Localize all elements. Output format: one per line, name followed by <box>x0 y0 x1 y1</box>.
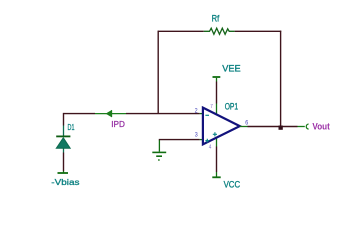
wire: feedback left vertical <box>157 31 159 114</box>
wire: input horizontal to op-amp <box>126 113 200 115</box>
svg-text:2: 2 <box>195 107 198 114</box>
op-amp OP1 <box>203 108 240 145</box>
-Vbias terminal <box>58 171 69 173</box>
wire: VCC vertical <box>216 147 218 173</box>
photodiode D1 <box>56 126 70 153</box>
svg-text:OP1: OP1 <box>225 101 238 111</box>
wire: VEE vertical <box>216 82 218 104</box>
wire: op-amp pin3 green stub <box>200 139 203 141</box>
svg-text:VCC: VCC <box>224 180 241 190</box>
resistor R f symbol <box>204 28 235 34</box>
svg-text:D1: D1 <box>68 122 75 132</box>
VEE terminal <box>213 77 221 82</box>
wire: op-amp pin4 green stub <box>216 138 218 147</box>
output terminal Vout (open connector) <box>306 124 308 129</box>
wire: op-amp pin7 green stub <box>216 104 218 115</box>
wire: op-amp pin6 green stub <box>240 126 248 128</box>
wire: top feedback horizontal right segment <box>235 30 282 32</box>
wire: green current-probe segment <box>95 113 126 115</box>
wire: diode bottom vertical <box>63 153 65 172</box>
svg-text:Rf: Rf <box>212 14 220 24</box>
junction (output node) <box>279 126 283 130</box>
VCC terminal <box>212 172 220 177</box>
wire: diode top vertical <box>63 113 65 126</box>
svg-text:7: 7 <box>210 104 213 110</box>
wire: output to terminal green <box>298 126 305 128</box>
wire: ground to op-amp pin3 <box>159 139 200 141</box>
wire: output horizontal <box>248 126 298 128</box>
svg-text:Vout: Vout <box>312 121 329 131</box>
svg-text:4: 4 <box>209 144 212 150</box>
svg-text:IPD: IPD <box>111 120 125 129</box>
current arrow IPD <box>106 110 111 117</box>
svg-text:3: 3 <box>195 132 198 139</box>
wire: top feedback horizontal left segment <box>158 30 204 32</box>
svg-text:-Vbias: -Vbias <box>51 177 79 187</box>
svg-text:6: 6 <box>245 120 248 127</box>
svg-text:VEE: VEE <box>222 63 240 74</box>
ground <box>152 140 166 160</box>
wire: op-amp pin2 green stub <box>200 113 203 115</box>
wire: input horizontal from diode corner <box>64 113 96 115</box>
wire: feedback right vertical <box>280 31 282 127</box>
